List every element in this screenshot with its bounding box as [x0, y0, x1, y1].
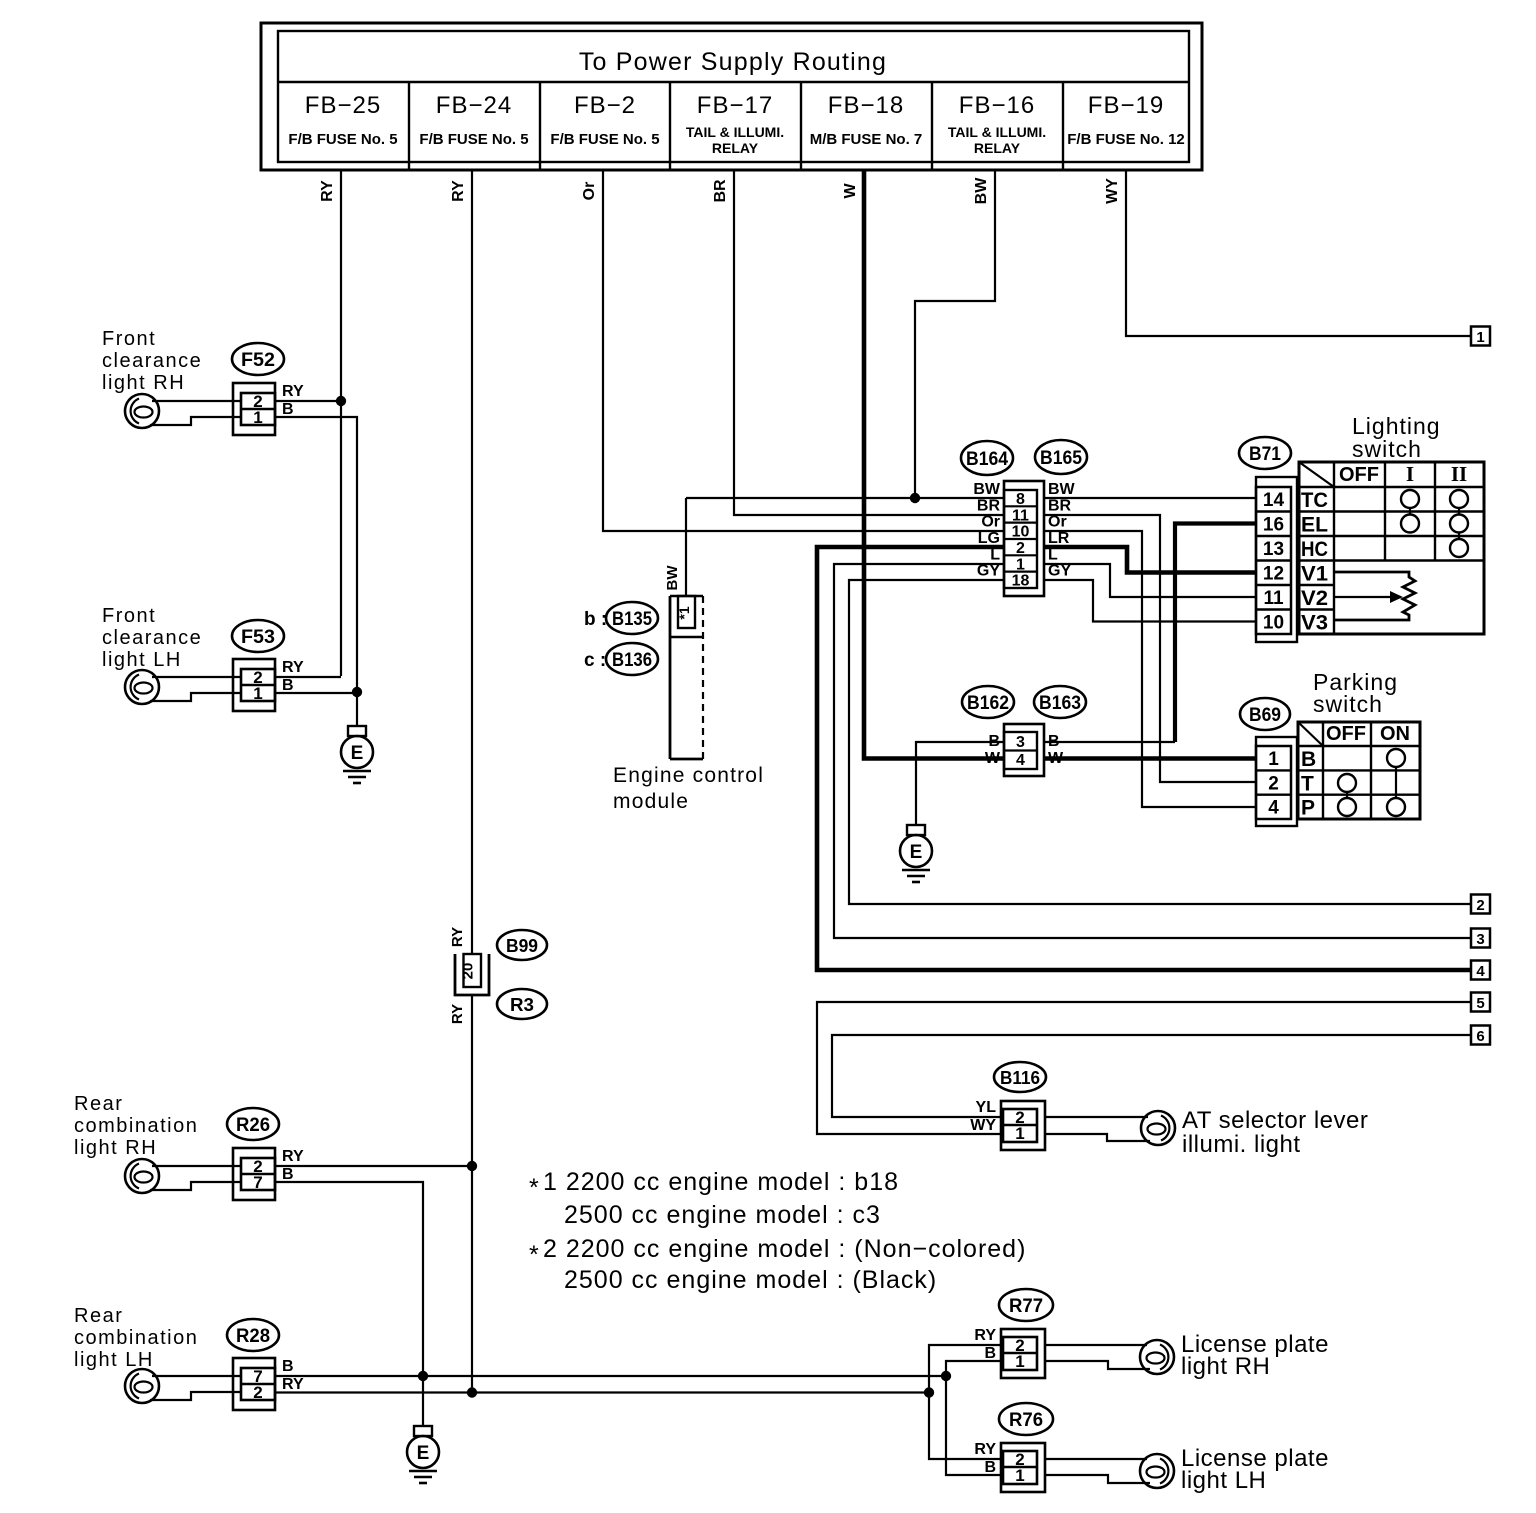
terminal 3: [1471, 929, 1490, 949]
svg-text:HC: HC: [1301, 538, 1328, 561]
svg-text:Rear: Rear: [74, 1305, 123, 1327]
svg-text:7: 7: [253, 1173, 262, 1192]
svg-text:clearance: clearance: [102, 350, 202, 372]
svg-text:BW: BW: [1048, 481, 1076, 498]
connector F53: [233, 659, 275, 711]
svg-text:FB−16: FB−16: [959, 92, 1035, 119]
wire BW from FB-16: [915, 170, 995, 498]
svg-text:RY: RY: [974, 1327, 996, 1344]
wire RY from R28 to license lights: [275, 1391, 929, 1393]
lighting switch table: [1299, 462, 1484, 635]
svg-text:B69: B69: [1249, 705, 1281, 726]
svg-text:2: 2: [253, 1383, 262, 1402]
svg-text:RY: RY: [450, 180, 467, 202]
connector B162/B163 body: [1004, 724, 1044, 776]
bulb license plate LH: [1140, 1454, 1174, 1488]
svg-text:B71: B71: [1249, 444, 1281, 465]
svg-text:BR: BR: [1048, 497, 1072, 514]
connector ellipse B69: [1240, 698, 1290, 730]
svg-text:8: 8: [1016, 491, 1025, 508]
B69 pin bracket: [1256, 737, 1297, 826]
terminal 4: [1471, 961, 1490, 981]
svg-text:B: B: [282, 1358, 294, 1375]
svg-text:light RH: light RH: [1181, 1353, 1270, 1380]
svg-text:FB−2: FB−2: [574, 92, 636, 119]
bulb front clearance LH: [125, 670, 159, 704]
svg-text:To Power Supply Routing: To Power Supply Routing: [579, 48, 887, 76]
svg-text:BR: BR: [977, 497, 1001, 514]
wire GY to terminal 2: [849, 580, 1472, 904]
junction BW: [910, 493, 920, 503]
svg-text:13: 13: [1263, 539, 1284, 560]
svg-text:B116: B116: [1000, 1068, 1040, 1088]
svg-text:W: W: [985, 750, 1001, 767]
connector R28: [233, 1358, 275, 1410]
svg-text:B: B: [282, 1166, 294, 1183]
svg-text:16: 16: [1263, 515, 1284, 536]
terminal 2: [1471, 895, 1490, 915]
wire to terminal 6 and B116 pin 2: [832, 1035, 1472, 1117]
svg-text:1: 1: [1268, 749, 1279, 770]
svg-text:3: 3: [1476, 931, 1484, 948]
svg-text:ON: ON: [1380, 723, 1410, 745]
wire BR to B69 pin 2: [1044, 515, 1256, 782]
svg-text:11: 11: [1012, 507, 1029, 524]
engine control module: [670, 596, 703, 759]
svg-text:E: E: [351, 743, 364, 764]
svg-text:RELAY: RELAY: [974, 140, 1021, 156]
svg-text:AT selector lever: AT selector lever: [1182, 1107, 1368, 1134]
wire BW row to B164 pin 8: [686, 497, 1004, 499]
svg-text:FB−24: FB−24: [436, 92, 512, 119]
wire BW stub to engine control module: [685, 498, 687, 596]
svg-text:2500 cc engine model : c3: 2500 cc engine model : c3: [564, 1201, 881, 1229]
wire RY from FB-25: [340, 170, 342, 676]
connector ellipse B71: [1239, 437, 1291, 469]
bulb wires R77: [1045, 1344, 1147, 1346]
B69 pin boxes: [1256, 746, 1291, 819]
svg-text:TAIL & ILLUMI.: TAIL & ILLUMI.: [686, 124, 784, 140]
svg-text:18: 18: [1012, 573, 1030, 590]
svg-text:R77: R77: [1009, 1296, 1043, 1317]
connector ellipse R26: [227, 1108, 279, 1140]
svg-text:1: 1: [1016, 556, 1025, 573]
svg-text:12: 12: [1263, 564, 1284, 585]
svg-text:2: 2: [1476, 897, 1484, 914]
svg-text:RY: RY: [282, 659, 304, 676]
svg-text:II: II: [1451, 462, 1467, 486]
svg-text:OFF: OFF: [1339, 464, 1379, 486]
svg-text:I: I: [1406, 462, 1414, 486]
svg-text:2500 cc engine model : (Black): 2500 cc engine model : (Black): [564, 1266, 937, 1294]
svg-text:B: B: [282, 401, 294, 418]
wire RY to R77/R76: [929, 1345, 1001, 1393]
wire B from F52: [275, 417, 357, 692]
svg-text:c :: c :: [584, 650, 606, 671]
ground below F53: [341, 726, 373, 783]
svg-text:2: 2: [1016, 540, 1025, 557]
svg-text:B99: B99: [506, 936, 538, 956]
bulb wires B116: [1045, 1116, 1148, 1118]
svg-text:clearance: clearance: [102, 627, 202, 649]
svg-text:1: 1: [1015, 1124, 1024, 1143]
svg-text:B163: B163: [1039, 693, 1081, 714]
ground below B162: [900, 825, 932, 882]
svg-text:R3: R3: [510, 995, 534, 1015]
svg-text:B: B: [1301, 748, 1316, 771]
svg-text:combination: combination: [74, 1327, 198, 1349]
svg-text:BR: BR: [712, 179, 729, 203]
wire L to terminal 3: [834, 564, 1472, 938]
svg-text:B135: B135: [612, 609, 652, 630]
bulb wires R76: [1045, 1458, 1147, 1460]
bulb rear combination LH: [125, 1369, 159, 1403]
svg-text:Or: Or: [581, 182, 598, 201]
svg-text:FB−19: FB−19: [1088, 92, 1164, 119]
bulb wires R28: [152, 1375, 241, 1377]
svg-text:FB−25: FB−25: [305, 92, 381, 119]
svg-text:B162: B162: [967, 693, 1009, 714]
connector ellipse B116: [994, 1062, 1046, 1092]
svg-text:2 2200 cc engine model : (Non−: 2 2200 cc engine model : (Non−colored): [543, 1235, 1026, 1263]
bulb AT selector: [1141, 1111, 1175, 1145]
svg-text:Rear: Rear: [74, 1093, 123, 1115]
svg-text:M/B FUSE No. 7: M/B FUSE No. 7: [810, 131, 923, 148]
svg-text:LR: LR: [1048, 530, 1070, 547]
svg-text:FB−18: FB−18: [828, 92, 904, 119]
svg-text:B164: B164: [966, 449, 1008, 470]
svg-text:b :: b :: [584, 609, 607, 630]
connector ellipse B164: [961, 441, 1013, 475]
wire WY from FB-19 to terminal 1: [1126, 170, 1472, 336]
svg-text:4: 4: [1476, 963, 1485, 980]
svg-text:*: *: [529, 1241, 539, 1269]
bulb wires R26: [152, 1165, 241, 1167]
connector ellipse B162: [962, 686, 1014, 718]
svg-text:WY: WY: [970, 1117, 996, 1134]
svg-text:*1: *1: [676, 606, 692, 619]
ground below R26/R28: [407, 1426, 439, 1483]
svg-text:light LH: light LH: [102, 649, 182, 671]
connector R77: [1001, 1329, 1045, 1378]
wire color labels under supply box: [319, 177, 1121, 205]
connector ellipse R76: [999, 1403, 1053, 1435]
svg-text:F/B FUSE No. 5: F/B FUSE No. 5: [288, 131, 397, 148]
terminal 5: [1471, 993, 1490, 1013]
svg-text:F/B FUSE No. 5: F/B FUSE No. 5: [550, 131, 659, 148]
B71 pin bracket: [1256, 477, 1297, 642]
svg-text:R28: R28: [236, 1326, 270, 1347]
svg-text:20: 20: [460, 963, 477, 980]
wire W from FB-18: [864, 170, 1004, 759]
svg-text:YL: YL: [976, 1099, 997, 1116]
lighting switch rheostat: [1334, 572, 1415, 620]
wire B from F53 to ground: [275, 692, 357, 694]
terminal 6: [1471, 1026, 1490, 1046]
svg-text:14: 14: [1263, 490, 1285, 511]
connector ellipse B165: [1035, 440, 1087, 474]
connector ellipse B99: [497, 930, 547, 960]
svg-text:RY: RY: [319, 180, 336, 202]
svg-text:Engine control: Engine control: [613, 764, 764, 787]
svg-text:light RH: light RH: [74, 1137, 157, 1159]
bulb rear combination RH: [125, 1159, 159, 1193]
bulb front clearance RH: [125, 394, 159, 428]
svg-text:4: 4: [1016, 752, 1025, 769]
svg-text:Front: Front: [102, 328, 156, 350]
svg-text:illumi. light: illumi. light: [1182, 1131, 1301, 1158]
connector F52: [233, 383, 275, 435]
svg-text:6: 6: [1476, 1028, 1484, 1045]
svg-text:E: E: [910, 842, 923, 863]
svg-text:RELAY: RELAY: [712, 140, 759, 156]
wire B from R28 to license lights: [275, 1375, 946, 1377]
wire BW to B71 pin 14: [1044, 497, 1256, 499]
svg-text:1 2200 cc engine model : b18: 1 2200 cc engine model : b18: [543, 1168, 899, 1196]
wire B from B162 pin 3 to ground: [916, 742, 1004, 825]
wire L to B71 pin 11: [1044, 564, 1256, 597]
svg-text:3: 3: [1016, 734, 1025, 751]
connector ellipse F52: [232, 343, 284, 375]
B71 pin boxes: [1256, 487, 1291, 634]
svg-text:4: 4: [1268, 798, 1279, 819]
svg-text:EL: EL: [1301, 514, 1328, 537]
svg-text:B: B: [984, 1459, 996, 1476]
svg-text:5: 5: [1476, 995, 1484, 1012]
connector ellipse B163: [1034, 686, 1086, 718]
wire RY from FB-24 lower: [471, 995, 473, 1393]
bulb wires F53: [152, 676, 241, 678]
connector B116: [1001, 1101, 1045, 1150]
svg-text:combination: combination: [74, 1115, 198, 1137]
svg-text:light LH: light LH: [1181, 1467, 1266, 1494]
parking switch table: [1298, 722, 1420, 820]
wire LR to B71 pin 12: [1044, 547, 1256, 573]
svg-text:RY: RY: [449, 927, 466, 947]
svg-text:10: 10: [1263, 613, 1284, 634]
svg-text:B: B: [282, 677, 294, 694]
svg-text:R26: R26: [236, 1115, 270, 1136]
svg-text:light RH: light RH: [102, 372, 185, 394]
connector ellipse F53: [232, 620, 284, 652]
connector ellipse R28: [227, 1319, 279, 1351]
svg-text:F52: F52: [241, 350, 275, 371]
svg-text:RY: RY: [282, 1148, 304, 1165]
wire B from B163 pin 3 to B71 pin 16: [1044, 741, 1175, 743]
svg-text:R76: R76: [1009, 1410, 1043, 1431]
svg-text:RY: RY: [974, 1441, 996, 1458]
svg-text:Or: Or: [981, 514, 1000, 531]
svg-text:V3: V3: [1301, 612, 1328, 635]
svg-text:TC: TC: [1301, 489, 1328, 512]
connector B164/B165 body: [1004, 481, 1044, 596]
svg-text:TAIL & ILLUMI.: TAIL & ILLUMI.: [948, 124, 1046, 140]
svg-text:OFF: OFF: [1326, 723, 1366, 745]
svg-text:BW: BW: [973, 481, 1001, 498]
connector B99/R3 pin 20: [455, 954, 489, 995]
svg-text:F/B FUSE No. 12: F/B FUSE No. 12: [1067, 131, 1185, 148]
connector ellipse R3: [497, 989, 547, 1019]
lighting switch contacts: [1401, 490, 1468, 557]
svg-text:switch: switch: [1313, 691, 1383, 717]
svg-text:B165: B165: [1040, 448, 1082, 469]
wire color labels at B162/B163: [985, 733, 1064, 767]
wire Or from FB-2: [603, 170, 1004, 531]
svg-text:RY: RY: [282, 383, 304, 400]
wire BR from FB-17: [734, 170, 1004, 515]
svg-text:10: 10: [1012, 524, 1030, 541]
svg-text:switch: switch: [1352, 436, 1422, 462]
terminal 1: [1471, 327, 1490, 347]
svg-text:E: E: [417, 1443, 430, 1464]
connector R26: [233, 1148, 275, 1200]
svg-text:V2: V2: [1301, 587, 1328, 610]
svg-text:module: module: [613, 790, 689, 813]
svg-text:Or: Or: [1048, 514, 1067, 531]
svg-text:GY: GY: [1048, 563, 1071, 580]
svg-text:RY: RY: [449, 1004, 466, 1024]
svg-text:1: 1: [253, 408, 262, 427]
parking switch contacts: [1338, 749, 1405, 816]
svg-text:W: W: [842, 183, 859, 199]
bulb license plate RH: [1140, 1340, 1174, 1374]
svg-text:B136: B136: [612, 650, 652, 671]
svg-text:1: 1: [1015, 1466, 1024, 1485]
wire GY to B71 pin 10: [1044, 580, 1256, 622]
wire RY from R26: [275, 1165, 472, 1167]
connector ellipse R77: [999, 1289, 1053, 1321]
wire B from R26: [275, 1182, 423, 1426]
svg-text:RY: RY: [282, 1376, 304, 1393]
svg-text:B: B: [984, 1345, 996, 1362]
svg-text:V1: V1: [1301, 563, 1328, 586]
svg-text:LG: LG: [978, 530, 1000, 547]
power supply routing box: [261, 23, 1202, 170]
wire LG to terminal 4: [817, 547, 1472, 970]
svg-text:BW: BW: [664, 565, 681, 591]
svg-text:F/B FUSE No. 5: F/B FUSE No. 5: [419, 131, 528, 148]
wire color labels at B164/B165: [973, 481, 1075, 580]
svg-text:1: 1: [1015, 1352, 1024, 1371]
svg-text:WY: WY: [1104, 178, 1121, 204]
svg-text:P: P: [1301, 797, 1315, 820]
svg-text:FB−17: FB−17: [697, 92, 773, 119]
connector R76: [1001, 1443, 1045, 1492]
wire RY from F52: [275, 400, 341, 402]
svg-text:Front: Front: [102, 605, 156, 627]
svg-text:2: 2: [1268, 773, 1279, 794]
svg-text:1: 1: [1476, 329, 1484, 346]
wire Or to B69 pin 4: [1044, 531, 1256, 807]
svg-text:T: T: [1301, 772, 1314, 795]
wire B to R77/R76: [946, 1361, 1001, 1376]
svg-text:1: 1: [253, 684, 262, 703]
wire RY from F53: [275, 676, 341, 678]
wire RY from FB-24 upper: [471, 170, 473, 954]
svg-text:BW: BW: [973, 177, 990, 205]
svg-text:L: L: [990, 546, 1000, 563]
svg-text:GY: GY: [977, 563, 1000, 580]
wire W from B163 pin 4 to B69 pin 1: [1044, 756, 1256, 761]
svg-text:11: 11: [1263, 588, 1284, 609]
svg-text:*: *: [529, 1174, 539, 1202]
bulb wires F52: [152, 400, 241, 402]
wire to terminal 5 and B116 pin 1: [817, 1002, 1472, 1134]
svg-text:F53: F53: [241, 627, 275, 648]
svg-text:light LH: light LH: [74, 1349, 154, 1371]
